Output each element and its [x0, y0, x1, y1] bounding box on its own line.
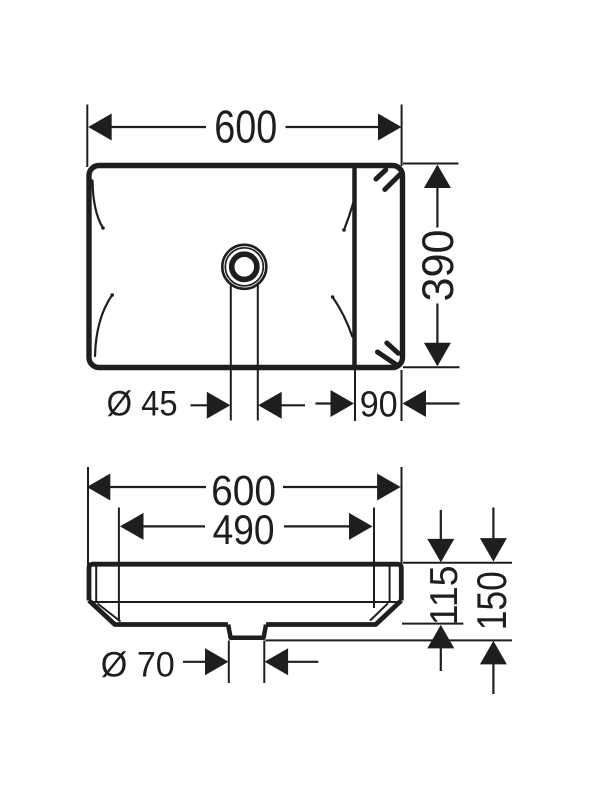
- dimension 390: extension lines: [403, 164, 460, 368]
- svg-text:600: 600: [214, 100, 277, 152]
- hatch marks top-right: [376, 170, 401, 190]
- svg-text:490: 490: [213, 506, 275, 553]
- horizontal extension top (115/150): [403, 562, 512, 564]
- basin profile bottom-left chamfer: [89, 601, 228, 625]
- dimension 90: left arrow: [316, 402, 333, 404]
- drain outer circle: [222, 245, 266, 289]
- hatch marks bottom-right: [378, 343, 399, 365]
- rim inner vertical left: [95, 566, 97, 601]
- dimension 150: bottom arrow: [480, 641, 507, 665]
- bowl inner wall lines / 490 extensions: [119, 508, 374, 622]
- dimension O70: left arrow: [183, 661, 207, 663]
- dimension 600 top: shafts: [111, 126, 379, 128]
- horizontal extension middle (115 bottom): [402, 623, 463, 625]
- svg-text:390: 390: [414, 230, 463, 302]
- dimension 600 front: arrowheads: [87, 474, 111, 501]
- dimension 115: bottom arrow: [427, 625, 454, 649]
- inner chamfer diagonal left: [98, 604, 121, 622]
- dimension 600 top: left arrowhead: [88, 114, 112, 141]
- dimension 150: top arrow: [492, 508, 494, 539]
- rim inner vertical right: [389, 566, 391, 601]
- svg-text:150: 150: [468, 571, 515, 630]
- corner arc bottom-right: [333, 297, 353, 337]
- dimension 90: extension lines: [355, 370, 402, 421]
- drain stub: [228, 625, 266, 638]
- extension line right (600 front): [401, 467, 403, 565]
- inner chamfer diagonal right: [370, 603, 388, 620]
- svg-text:Ø 45: Ø 45: [107, 384, 178, 423]
- dimension 490: arrowheads: [120, 513, 144, 540]
- basin profile outline: [89, 564, 401, 600]
- divider line (shelf edge): [352, 164, 357, 370]
- svg-text:115: 115: [423, 565, 466, 625]
- dimension 600 front: shafts: [110, 486, 378, 488]
- drain middle circle: [225, 248, 263, 286]
- rim inner horizontal line: [91, 601, 399, 603]
- horizontal extension bottom (150 bottom): [266, 639, 513, 641]
- dimension 90: right arrow: [403, 390, 427, 417]
- dimension 390: shafts: [436, 187, 438, 344]
- dimension 390: top arrowhead: [424, 165, 451, 189]
- corner arc top-right: [344, 202, 354, 230]
- svg-text:Ø 70: Ø 70: [101, 645, 175, 684]
- basin outline (top view rounded rect): [89, 166, 403, 368]
- extension line left (600 top): [86, 105, 88, 168]
- dimension O45: left arrow: [191, 404, 208, 406]
- dimension 600 top: right arrowhead: [378, 114, 402, 141]
- O70 extension lines: [229, 641, 264, 684]
- drain ring: [232, 254, 257, 279]
- basin profile bottom-right chamfer: [266, 601, 401, 625]
- dimension O70: right arrow: [265, 648, 289, 675]
- extension line right (600 top): [401, 105, 403, 167]
- drain extension lines: [231, 285, 258, 421]
- dimension O45: right arrow: [258, 392, 282, 419]
- svg-text:90: 90: [360, 383, 398, 424]
- dimension 115: top arrow: [440, 510, 442, 540]
- corner arc top-left: [93, 181, 104, 229]
- extension line left (600 front): [87, 467, 89, 565]
- corner arc bottom-left: [95, 295, 112, 356]
- dimension 490: shafts: [143, 525, 350, 527]
- dimension 390: bottom arrowhead: [424, 343, 451, 367]
